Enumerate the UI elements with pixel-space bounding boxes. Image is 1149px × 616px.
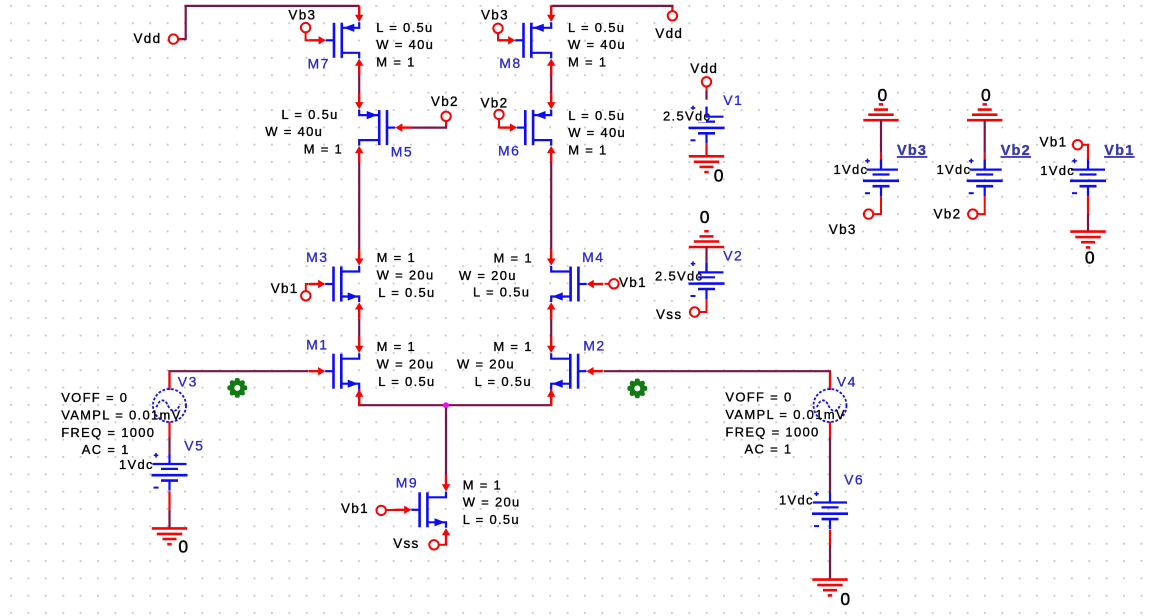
junction tail node [443, 402, 449, 408]
svg-text:L = 0.5u: L = 0.5u [475, 374, 532, 389]
svg-text:Vb2: Vb2 [1001, 143, 1031, 159]
port Vb1 (bias) [1073, 140, 1082, 149]
svg-text:M7: M7 [308, 56, 330, 72]
inverted ground (Vb3) [863, 119, 898, 122]
wire M8 drain to Vdd-right [551, 6, 672, 12]
svg-text:2.5Vdc: 2.5Vdc [655, 269, 703, 284]
ground 0 (V6) [812, 578, 847, 581]
wire V2 top [705, 247, 707, 262]
svg-text:0: 0 [840, 589, 850, 609]
port Vb2 (M6 gate) [494, 110, 503, 119]
svg-text:W = 20u: W = 20u [377, 267, 435, 282]
red pin V5 bottom [168, 491, 170, 510]
svg-text:W = 40u: W = 40u [568, 37, 626, 52]
svg-text:M9: M9 [396, 475, 418, 491]
battery Vb2 [968, 169, 1002, 171]
svg-text:L = 0.5u: L = 0.5u [376, 20, 433, 35]
svg-text:FREQ = 1000: FREQ = 1000 [725, 424, 819, 439]
wire Vb2 port to M5 gate [412, 120, 447, 127]
wire Vb2 ground to battery [984, 120, 986, 153]
svg-text:0: 0 [1085, 248, 1095, 268]
svg-text:Vb2: Vb2 [481, 96, 509, 111]
red pin Vb1 top [1087, 150, 1089, 160]
svg-text:V1: V1 [723, 92, 743, 108]
port Vb3 (M7 gate) [301, 23, 310, 32]
battery V2 [690, 271, 724, 273]
wire M6 source to M4 drain [550, 162, 552, 249]
svg-text:W = 20u: W = 20u [377, 356, 435, 371]
svg-text:V6: V6 [844, 472, 864, 488]
svg-text:M8: M8 [499, 55, 521, 71]
red pin Vb3 top [880, 153, 882, 160]
marker green left [230, 381, 244, 395]
wire M8 source to M6 drain [550, 75, 552, 93]
svg-text:V3: V3 [178, 373, 198, 389]
svg-text:W = 40u: W = 40u [265, 124, 323, 139]
svg-text:1Vdc: 1Vdc [1040, 163, 1075, 178]
svg-text:M = 1: M = 1 [494, 251, 533, 266]
svg-text:V5: V5 [184, 438, 204, 454]
svg-text:Vss: Vss [656, 307, 682, 322]
wire M7 source to M5 drain [358, 75, 360, 93]
port Vb3 (bias) [864, 209, 873, 218]
port Vss (M9 source) [429, 540, 438, 549]
red pin segment M2 source [550, 389, 552, 404]
svg-text:Vb1: Vb1 [341, 501, 369, 516]
transistor M1 [332, 354, 335, 389]
svg-text:M = 1: M = 1 [377, 339, 416, 354]
svg-text:M = 1: M = 1 [376, 55, 415, 70]
svg-text:VOFF = 0: VOFF = 0 [61, 390, 128, 405]
svg-text:0: 0 [981, 85, 991, 105]
wire V3 to M1 gate [170, 371, 309, 389]
svg-text:Vb1: Vb1 [1040, 135, 1068, 150]
red pin V2 bottom [699, 299, 707, 312]
svg-text:Vb1: Vb1 [271, 281, 299, 296]
wire V3 to V5 [168, 437, 170, 454]
value 2.5Vdc (V1) [662, 110, 706, 123]
wire V1 top [705, 91, 707, 100]
transistor M8 [522, 23, 525, 58]
ground 0 (V1) [689, 155, 724, 158]
svg-text:0: 0 [878, 85, 888, 105]
port Vb2 (M5 gate) [441, 112, 450, 121]
value 1Vdc (Vb2) [936, 163, 970, 176]
svg-text:V2: V2 [723, 247, 743, 263]
svg-text:AC = 1: AC = 1 [82, 442, 130, 457]
svg-text:0: 0 [178, 536, 188, 556]
svg-text:M3: M3 [306, 249, 328, 265]
svg-text:VAMPL = 0.01mV: VAMPL = 0.01mV [725, 407, 845, 422]
svg-text:Vb3: Vb3 [481, 8, 509, 23]
battery V6 [813, 501, 847, 503]
svg-text:L = 0.5u: L = 0.5u [568, 108, 625, 123]
battery V1 [690, 116, 724, 118]
sine source V3 [153, 389, 186, 422]
red pin V3 top [168, 372, 170, 390]
wire V6 to ground [829, 545, 831, 580]
transistor M5 [386, 110, 389, 145]
svg-text:W = 20u: W = 20u [457, 357, 515, 372]
transistor M2 [577, 354, 580, 389]
transistor M4 [577, 267, 580, 302]
svg-text:V4: V4 [837, 373, 857, 389]
svg-text:W = 40u: W = 40u [376, 37, 434, 52]
svg-text:M5: M5 [391, 143, 413, 159]
svg-text:AC = 1: AC = 1 [745, 442, 793, 457]
ground 0 (V5) [152, 527, 187, 530]
svg-text:Vb1: Vb1 [619, 275, 647, 290]
svg-text:1Vdc: 1Vdc [834, 162, 869, 177]
red pin V1 minus [705, 143, 707, 156]
svg-text:VAMPL = 0.01mV: VAMPL = 0.01mV [61, 408, 181, 423]
svg-text:M = 1: M = 1 [463, 477, 502, 492]
wire V5 to ground [168, 510, 170, 529]
wire M1 source to tail node [359, 389, 446, 405]
port Vdd left [169, 34, 178, 43]
svg-text:Vb3: Vb3 [288, 7, 316, 22]
svg-text:L = 0.5u: L = 0.5u [378, 285, 435, 300]
svg-text:L = 0.5u: L = 0.5u [473, 284, 530, 299]
transistor M9 [418, 492, 421, 527]
svg-text:M = 1: M = 1 [568, 143, 607, 158]
svg-text:L = 0.5u: L = 0.5u [463, 512, 520, 527]
transistor M3 [332, 267, 335, 302]
red pin Vb2 bottom [977, 196, 985, 214]
svg-text:L = 0.5u: L = 0.5u [281, 107, 338, 122]
svg-text:Vb3: Vb3 [897, 143, 927, 159]
wire M5 source to M3 drain [358, 162, 360, 249]
svg-text:M = 1: M = 1 [377, 250, 416, 265]
svg-text:1Vdc: 1Vdc [119, 457, 154, 472]
wire M3 source to M1 drain [358, 319, 360, 337]
red pin V4 bottom [829, 422, 831, 437]
battery Vb3 [864, 169, 898, 171]
red pin Vb2 top [984, 153, 986, 160]
svg-text:1Vdc: 1Vdc [937, 162, 972, 177]
marker green right [630, 381, 644, 395]
sine source V4 [814, 389, 847, 422]
red pin V4 top [829, 372, 831, 390]
svg-text:Vdd: Vdd [690, 61, 718, 76]
svg-text:2.5Vdc: 2.5Vdc [663, 109, 711, 124]
red pin V3 bottom [168, 422, 170, 437]
svg-text:Vb1: Vb1 [1104, 143, 1134, 159]
red pin segment M1 source [358, 389, 360, 404]
svg-text:W = 20u: W = 20u [459, 268, 517, 283]
svg-text:VOFF = 0: VOFF = 0 [725, 390, 792, 405]
svg-text:M = 1: M = 1 [568, 55, 607, 70]
ground 0 (Vb1) [1070, 230, 1105, 233]
transistor M6 [524, 110, 527, 145]
port Vss (V2) [690, 307, 699, 316]
inverted ground 0 (V2) [689, 246, 724, 249]
svg-text:Vdd: Vdd [655, 26, 683, 41]
svg-text:FREQ = 1000: FREQ = 1000 [61, 425, 155, 440]
port Vb1 (M4 gate) [609, 279, 618, 288]
wire M2 source to tail node [446, 389, 551, 405]
svg-text:0: 0 [700, 207, 710, 227]
wire V4 to M2 gate [604, 371, 830, 389]
wire M4 source to M2 drain [550, 319, 552, 337]
wire V4 to V6 [829, 437, 831, 493]
svg-text:M6: M6 [498, 143, 520, 159]
port Vb1 (M9 gate) [377, 506, 386, 515]
value 1Vdc (Vb3) [833, 163, 867, 176]
wire tail node to M9 drain [445, 405, 447, 475]
svg-text:Vss: Vss [393, 536, 419, 551]
svg-text:Vb2: Vb2 [431, 94, 459, 109]
value 2.5Vdc (V2) [654, 270, 698, 283]
transistor M7 [333, 23, 336, 58]
svg-text:W = 40u: W = 40u [568, 125, 626, 140]
svg-text:L = 0.5u: L = 0.5u [568, 20, 625, 35]
svg-text:M4: M4 [582, 249, 604, 265]
red pin Vb3 bottom [873, 196, 881, 214]
svg-text:Vb3: Vb3 [829, 222, 857, 237]
svg-text:Vdd: Vdd [134, 31, 162, 46]
svg-text:0: 0 [714, 166, 724, 186]
wire Vb3 ground to battery [880, 120, 882, 153]
svg-text:L = 0.5u: L = 0.5u [378, 374, 435, 389]
svg-text:1Vdc: 1Vdc [779, 492, 814, 507]
svg-text:M1: M1 [306, 337, 328, 353]
port Vb1 (M3 gate) [301, 291, 310, 300]
wire Vb1 to ground [1087, 213, 1089, 231]
svg-text:M2: M2 [583, 338, 605, 354]
battery V5 [153, 463, 187, 465]
svg-text:M = 1: M = 1 [493, 339, 532, 354]
battery Vb1 [1071, 169, 1105, 171]
svg-text:W = 20u: W = 20u [463, 495, 521, 510]
port Vb3 (M8 gate) [493, 24, 502, 33]
svg-text:Vb2: Vb2 [934, 206, 962, 221]
red pin Vb1 bottom [1087, 196, 1089, 213]
wire Vdd-left to M7 drain [177, 6, 359, 39]
red pin V6 bottom [829, 530, 831, 545]
port Vdd (V1) [702, 77, 711, 86]
inverted ground (Vb2) [967, 119, 1002, 122]
svg-text:M = 1: M = 1 [304, 142, 343, 157]
port Vdd right-top [668, 11, 677, 20]
port Vb2 (bias) [968, 209, 977, 218]
